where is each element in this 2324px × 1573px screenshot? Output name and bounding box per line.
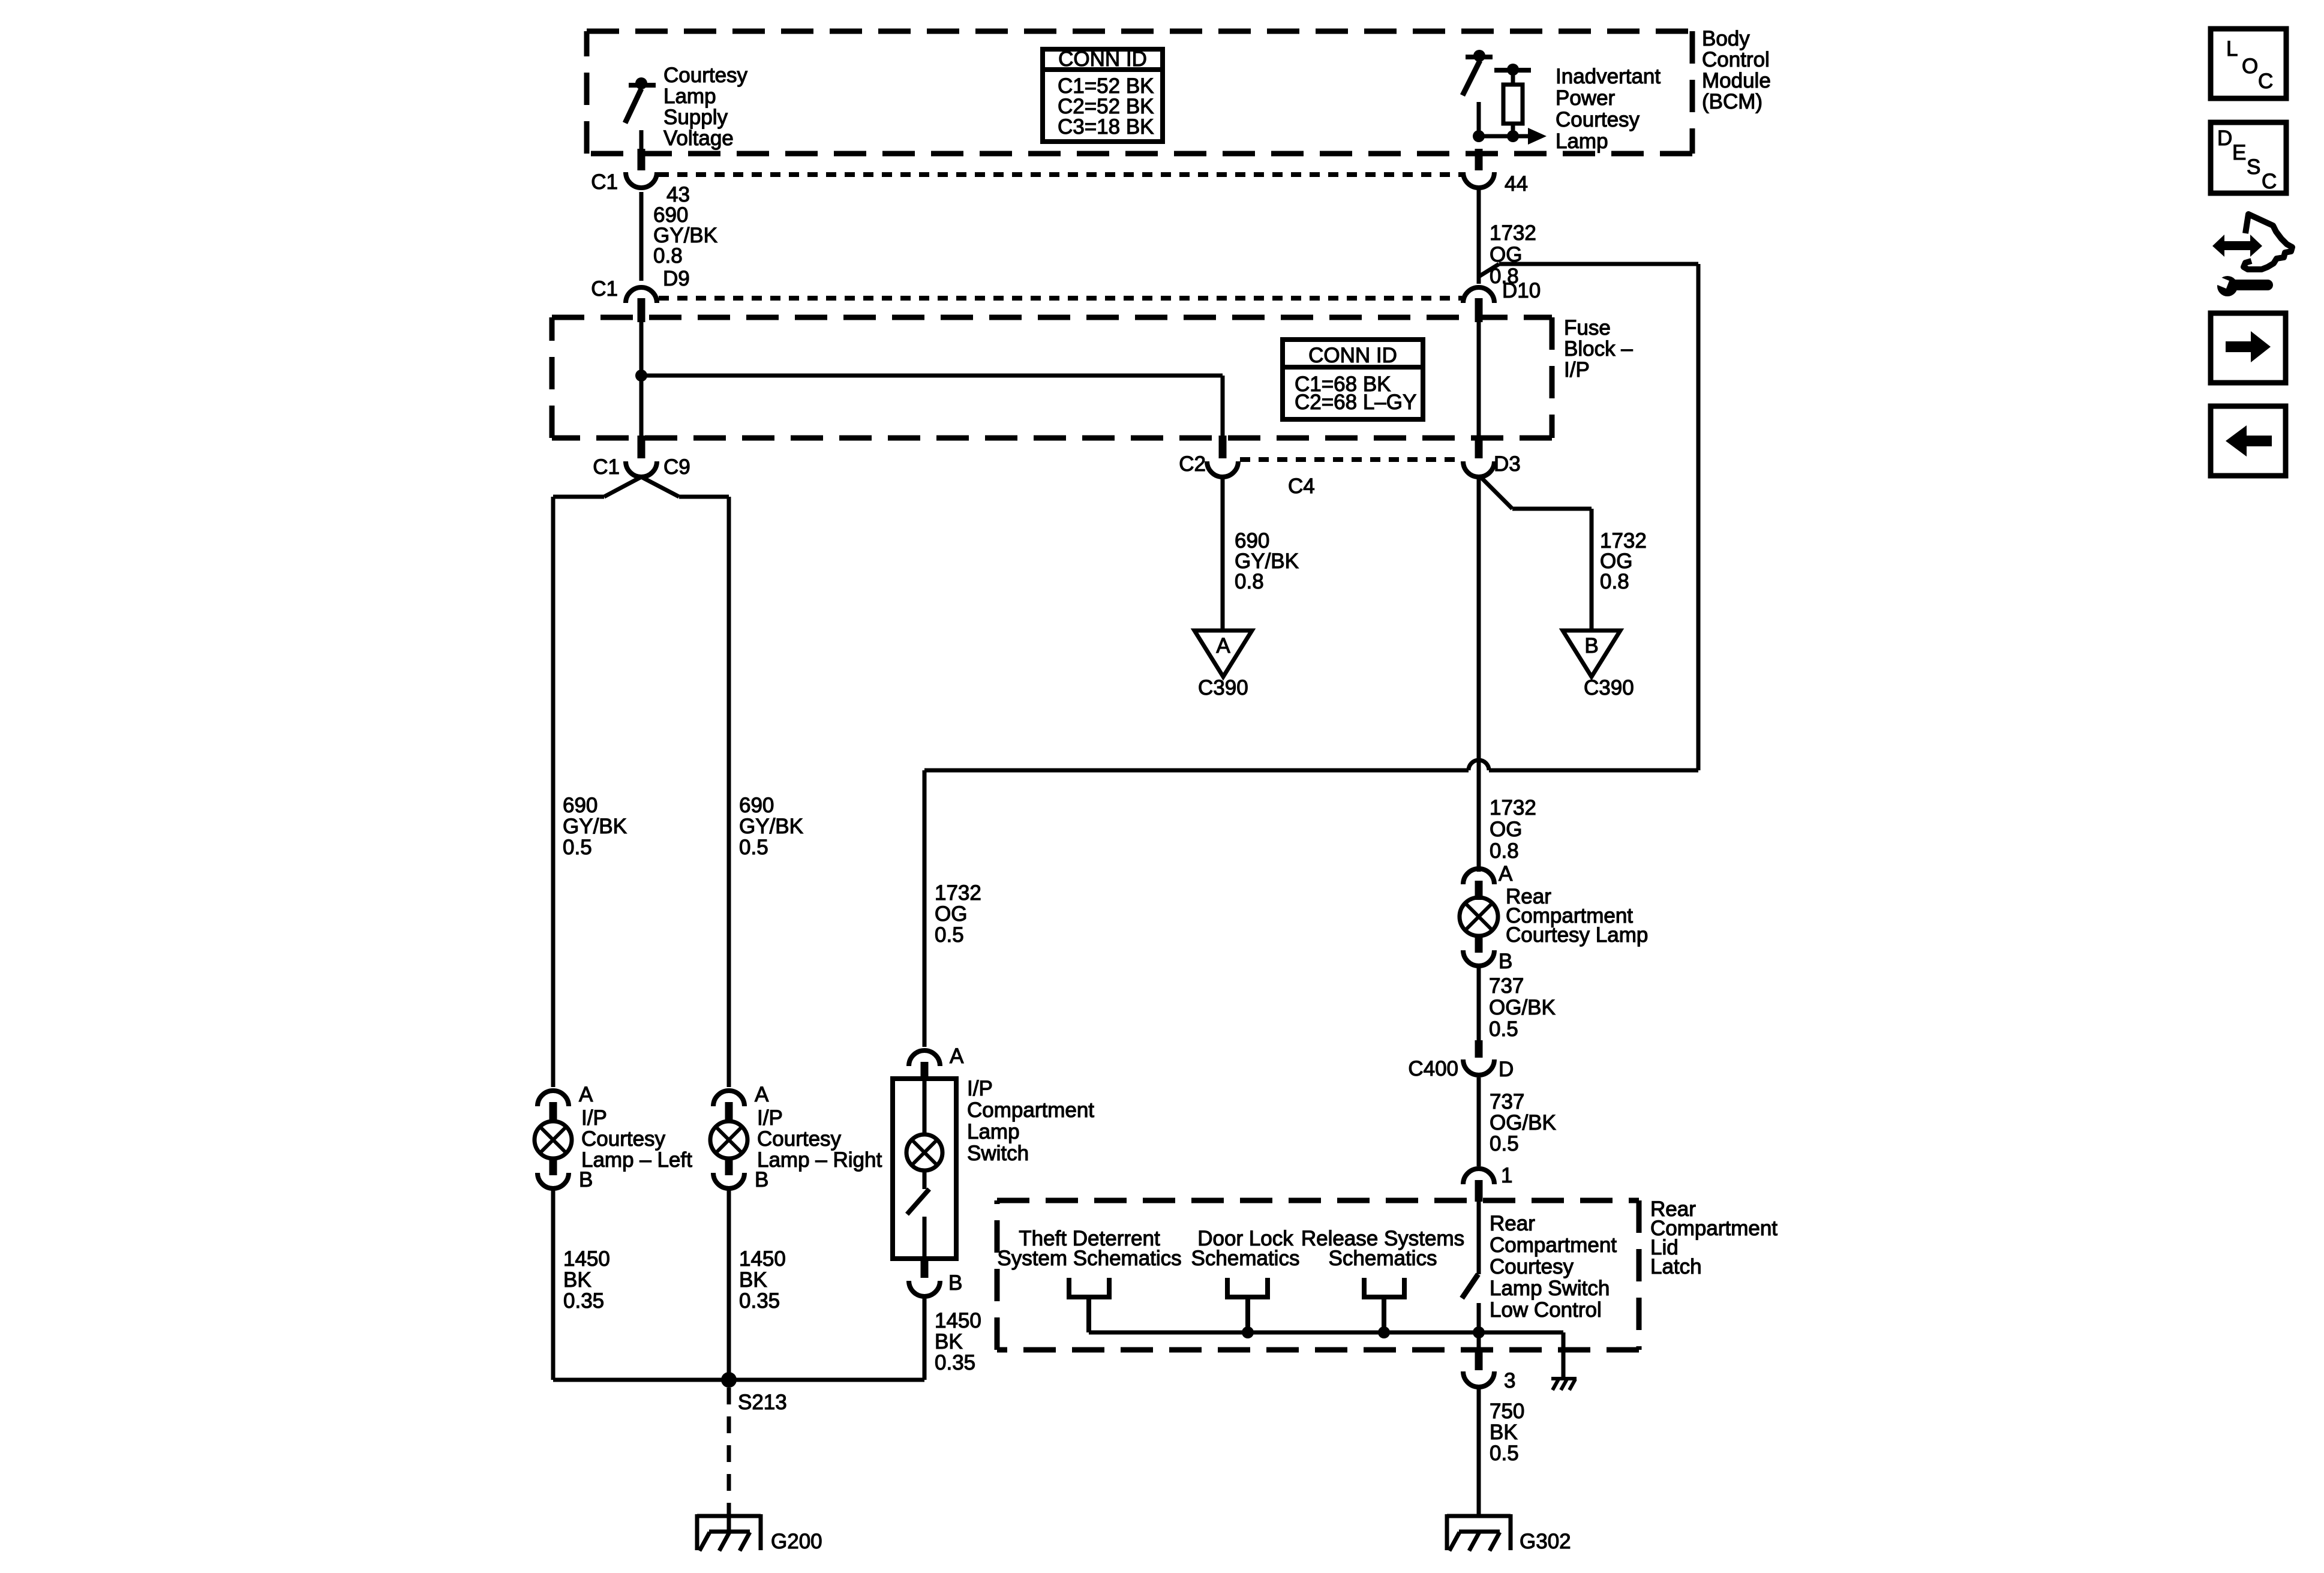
svg-text:B: B — [1499, 950, 1512, 973]
svg-text:C390: C390 — [1198, 676, 1248, 700]
svg-text:GY/BK: GY/BK — [563, 815, 627, 838]
icon box LOC — [2211, 29, 2286, 98]
svg-text:BK: BK — [739, 1268, 767, 1292]
svg-text:I/P: I/P — [967, 1077, 993, 1100]
wire lamp left down (1450 BK 0.35) — [551, 1188, 556, 1380]
connector pin 44 (BCM) — [1475, 149, 1483, 170]
svg-text:C3=18 BK: C3=18 BK — [1058, 115, 1154, 139]
svg-text:0.35: 0.35 — [739, 1289, 780, 1313]
svg-text:(BCM): (BCM) — [1702, 90, 1762, 113]
switch: Courtesy Lamp Supply Voltage — [625, 85, 656, 150]
svg-text:Courtesy: Courtesy — [757, 1127, 842, 1151]
fuse block internal wires — [639, 321, 644, 438]
svg-text:C2=68 L–GY: C2=68 L–GY — [1295, 391, 1416, 414]
svg-text:Module: Module — [1702, 69, 1771, 92]
svg-text:OG/BK: OG/BK — [1489, 996, 1556, 1019]
wire C400 to latch pin 1 (737 OG/BK 0.5) — [1477, 1077, 1481, 1166]
svg-text:0.5: 0.5 — [1489, 1017, 1518, 1041]
svg-text:CONN ID: CONN ID — [1058, 47, 1147, 71]
label: I/P Courtesy Lamp - Right — [757, 1106, 882, 1172]
connector D3 (fuse block bottom right) — [1475, 436, 1483, 458]
svg-text:Supply: Supply — [663, 106, 728, 129]
label 690 GY/BK 0.8 — [653, 203, 717, 268]
connector D9 (fuse block) — [626, 287, 657, 303]
svg-text:0.5: 0.5 — [1490, 1132, 1519, 1155]
svg-text:0.8: 0.8 — [1490, 839, 1519, 863]
svg-text:Power: Power — [1556, 86, 1616, 110]
svg-text:OG: OG — [1490, 818, 1522, 841]
svg-text:C2: C2 — [1179, 452, 1206, 476]
rear compartment courtesy lamp pin B — [1463, 950, 1494, 966]
svg-text:Lamp – Right: Lamp – Right — [757, 1148, 882, 1172]
icon box back arrow — [2211, 406, 2286, 476]
wire B to C400 (737 OG/BK 0.5) — [1477, 967, 1481, 1044]
svg-text:BK: BK — [935, 1330, 963, 1353]
resistor (BCM internal) — [1494, 70, 1531, 136]
rear compartment courtesy lamp pin A — [1463, 869, 1494, 884]
svg-text:G200: G200 — [771, 1530, 822, 1553]
I/P Courtesy Lamp Left bulb — [535, 1121, 572, 1158]
svg-text:737: 737 — [1489, 974, 1524, 998]
I/P compartment lamp switch pin A — [909, 1050, 940, 1066]
svg-text:C400: C400 — [1408, 1057, 1458, 1080]
svg-text:0.8: 0.8 — [1235, 570, 1264, 593]
label 1732 OG 0.5 (lamp switch wire) — [935, 881, 981, 947]
label 690 GY/BK 0.5 (left) — [563, 794, 627, 859]
svg-text:Lamp – Left: Lamp – Left — [581, 1148, 692, 1172]
dotted in-line connector line (43/44 row) — [659, 172, 1462, 177]
svg-text:Compartment: Compartment — [967, 1098, 1094, 1122]
icon box DESC — [2211, 122, 2286, 193]
latch internal ground symbol — [1551, 1379, 1577, 1390]
I/P Courtesy Lamp Left: pin A — [538, 1091, 569, 1106]
svg-text:1450: 1450 — [563, 1247, 610, 1271]
svg-text:Compartment: Compartment — [1490, 1233, 1617, 1257]
svg-text:C: C — [2262, 170, 2277, 193]
svg-text:Lamp: Lamp — [1556, 130, 1608, 153]
svg-text:690: 690 — [563, 794, 597, 817]
svg-text:C: C — [2258, 70, 2273, 93]
svg-text:0.5: 0.5 — [935, 923, 964, 947]
icon box forward arrow — [2211, 313, 2286, 383]
svg-text:A: A — [950, 1044, 964, 1068]
I/P Courtesy Lamp Left: pin B — [538, 1173, 569, 1188]
svg-text:D3: D3 — [1494, 452, 1521, 476]
svg-text:Voltage: Voltage — [663, 127, 734, 150]
I/P compartment lamp switch box — [893, 1079, 956, 1259]
svg-text:System Schematics: System Schematics — [997, 1247, 1181, 1270]
svg-text:B: B — [1584, 634, 1598, 658]
svg-text:D: D — [1499, 1058, 1514, 1081]
wire hop (crossover, no connection) — [1469, 760, 1489, 770]
svg-text:BK: BK — [563, 1268, 591, 1292]
svg-text:C390: C390 — [1584, 676, 1634, 700]
svg-text:G302: G302 — [1520, 1530, 1571, 1553]
wire lamp switch B down (1450 BK 0.35) — [923, 1296, 927, 1380]
latch connector pin 1 — [1463, 1169, 1494, 1184]
junction dot — [635, 370, 647, 382]
svg-text:D: D — [2217, 127, 2232, 150]
svg-text:1450: 1450 — [935, 1309, 981, 1332]
svg-text:0.5: 0.5 — [739, 836, 768, 859]
svg-text:GY/BK: GY/BK — [739, 815, 803, 838]
dashed wire S213 to G200 — [727, 1388, 731, 1503]
svg-text:1732: 1732 — [935, 881, 981, 905]
dotted in-line connector line (C2/C4 to D3 row) — [1240, 457, 1462, 462]
D10 bypass diagonal and outer route — [924, 264, 1698, 1047]
label: Courtesy Lamp Supply Voltage — [663, 64, 748, 150]
wrench — [2217, 276, 2238, 296]
svg-text:1732: 1732 — [1490, 796, 1536, 819]
svg-text:B: B — [948, 1271, 962, 1295]
main wire D3 down to rear lamp (1732 OG 0.8) — [1477, 476, 1481, 872]
rear compartment courtesy lamp switch low control — [1462, 1202, 1479, 1350]
double arrow — [2212, 235, 2262, 257]
svg-text:3: 3 — [1504, 1369, 1515, 1392]
connector pin 43 (BCM C1) — [638, 149, 645, 170]
svg-text:0.35: 0.35 — [935, 1351, 975, 1374]
svg-text:Latch: Latch — [1650, 1255, 1702, 1278]
svg-text:Courtesy: Courtesy — [663, 64, 748, 87]
contour outline — [2244, 214, 2292, 269]
splice S213 — [721, 1372, 737, 1388]
label: Fuse Block - I/P — [1564, 316, 1633, 382]
svg-text:Schematics: Schematics — [1329, 1247, 1437, 1270]
svg-text:0.8: 0.8 — [653, 244, 683, 268]
svg-text:I/P: I/P — [757, 1106, 783, 1130]
svg-text:Courtesy: Courtesy — [1490, 1255, 1574, 1278]
svg-text:A: A — [755, 1083, 769, 1106]
svg-text:Schematics: Schematics — [1191, 1247, 1300, 1270]
label: Inadvertant Power Courtesy Lamp — [1556, 65, 1661, 153]
off-page triangle B (C390) — [1563, 631, 1620, 677]
svg-text:OG/BK: OG/BK — [1490, 1111, 1556, 1134]
svg-text:CONN ID: CONN ID — [1308, 344, 1397, 367]
svg-text:L: L — [2226, 37, 2238, 61]
branch to triangle B — [1480, 476, 1592, 631]
svg-text:C4: C4 — [1288, 475, 1315, 498]
svg-text:Courtesy: Courtesy — [1556, 108, 1640, 131]
connector C2/C4 (fuse block bottom) — [1219, 436, 1227, 458]
connector C1/C9 (fuse block bottom left) — [638, 436, 645, 458]
I/P Courtesy Lamp Right: pin B — [713, 1173, 744, 1188]
svg-text:0.5: 0.5 — [563, 836, 592, 859]
svg-text:Lamp: Lamp — [663, 85, 716, 108]
svg-text:1: 1 — [1501, 1164, 1512, 1187]
latch internal bus wire — [1089, 1331, 1563, 1335]
svg-text:I/P: I/P — [1564, 358, 1590, 382]
CONN ID table (BCM) — [1043, 49, 1163, 142]
junction + output arrow (Inadvertant Power Courtesy Lamp) — [1479, 134, 1529, 139]
connector C400 pin D — [1475, 1040, 1483, 1058]
svg-text:Courtesy Lamp: Courtesy Lamp — [1506, 923, 1648, 947]
svg-text:S: S — [2247, 155, 2260, 179]
svg-text:E: E — [2232, 141, 2246, 164]
I/P Courtesy Lamp Right: pin A — [713, 1091, 744, 1106]
ground G302 — [1447, 1514, 1511, 1551]
connector D10 (fuse block) — [1463, 287, 1494, 303]
label: Rear Compartment Lid Latch — [1650, 1197, 1777, 1278]
svg-text:Lamp: Lamp — [967, 1120, 1020, 1143]
svg-text:Body: Body — [1702, 27, 1750, 50]
wire 43 to D9 (690 GY/BK 0.8) — [639, 192, 644, 281]
svg-text:Control: Control — [1702, 48, 1770, 71]
bracket stub: door lock — [1227, 1278, 1268, 1332]
svg-text:C1: C1 — [593, 455, 620, 479]
wire C2 down (690 GY/BK 0.8) — [1221, 476, 1225, 631]
svg-text:690: 690 — [739, 794, 774, 817]
svg-text:O: O — [2242, 55, 2258, 78]
label: I/P Courtesy Lamp - Left — [581, 1106, 692, 1172]
latch connector pin 3 — [1475, 1347, 1483, 1370]
svg-text:C1: C1 — [591, 170, 618, 194]
CONN ID table (fuse block) — [1283, 340, 1423, 419]
svg-text:0.35: 0.35 — [563, 1289, 604, 1313]
wire lamp right down (1450 BK 0.35) — [727, 1188, 731, 1380]
svg-text:C9: C9 — [663, 455, 690, 479]
BCM dashed box (Body Control Module) — [587, 31, 1692, 154]
svg-text:Switch: Switch — [967, 1142, 1029, 1165]
svg-text:Lamp Switch: Lamp Switch — [1490, 1277, 1610, 1300]
svg-text:A: A — [1216, 634, 1230, 658]
dotted in-line connector line (D9/D10 row) — [659, 296, 1462, 301]
bracket stub: release systems — [1364, 1278, 1404, 1332]
lamp switch internals — [923, 1079, 927, 1134]
svg-text:C1: C1 — [591, 277, 618, 301]
svg-text:A: A — [579, 1083, 593, 1106]
label 690 GY/BK 0.5 (right) — [739, 794, 803, 859]
label 1732 OG 0.8 — [1490, 221, 1536, 288]
svg-text:Courtesy: Courtesy — [581, 1127, 666, 1151]
svg-text:1450: 1450 — [739, 1247, 786, 1271]
wire pin 3 to G302 (750 BK 0.5) — [1477, 1388, 1481, 1515]
label: I/P Compartment Lamp Switch — [967, 1077, 1094, 1165]
Fuse Block I/P dashed box — [552, 317, 1552, 438]
svg-text:Inadvertant: Inadvertant — [1556, 65, 1661, 88]
svg-text:I/P: I/P — [581, 1106, 607, 1130]
icon: schematic navigation (arrows and wrench) — [2212, 214, 2292, 296]
svg-text:Block –: Block – — [1564, 337, 1633, 361]
svg-text:44: 44 — [1505, 172, 1528, 196]
BCM label text — [1702, 27, 1771, 113]
latch internal ground drop — [1562, 1332, 1566, 1378]
ground G200 — [697, 1503, 761, 1551]
ground bus wire S213 — [553, 1378, 924, 1382]
wire 44 to D10 (1732 OG 0.8) — [1477, 187, 1481, 284]
off-page triangle A (C390) — [1194, 631, 1252, 677]
svg-text:1732: 1732 — [1490, 221, 1536, 245]
switch: Inadvertant Power Courtesy Lamp — [1463, 57, 1493, 136]
svg-text:OG: OG — [935, 902, 967, 926]
I/P Courtesy Lamp Right bulb — [710, 1121, 747, 1158]
svg-text:D10: D10 — [1502, 279, 1541, 302]
split wires to the two I/P courtesy lamps — [553, 477, 729, 1087]
theft deterrent / door lock / release systems references — [997, 1227, 1464, 1270]
lamp switch pin B — [921, 1259, 929, 1278]
svg-text:A: A — [1499, 862, 1513, 885]
fuse block internal wire right (D10 to D3) — [1477, 321, 1481, 438]
svg-text:737: 737 — [1490, 1090, 1524, 1113]
svg-text:D9: D9 — [663, 267, 690, 290]
Rear Compartment Lid Latch dashed box — [997, 1200, 1639, 1350]
rear compartment courtesy lamp — [1460, 897, 1498, 936]
svg-text:BK: BK — [1490, 1421, 1518, 1444]
svg-text:Rear: Rear — [1490, 1212, 1535, 1235]
bracket stub: theft deterrent — [1069, 1278, 1109, 1332]
svg-text:S213: S213 — [738, 1391, 787, 1414]
svg-text:0.8: 0.8 — [1600, 570, 1629, 593]
svg-text:750: 750 — [1490, 1400, 1524, 1423]
internal wire to C2 — [641, 374, 1223, 378]
svg-text:Low Control: Low Control — [1490, 1298, 1602, 1322]
svg-text:0.5: 0.5 — [1490, 1442, 1519, 1465]
svg-text:Fuse: Fuse — [1564, 316, 1611, 340]
